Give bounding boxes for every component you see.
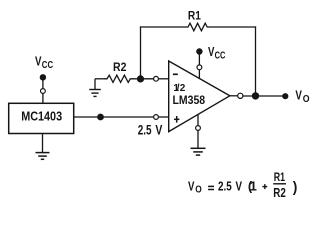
junction dot (output/feedback) <box>252 92 259 99</box>
VCC terminal dot (op-amp) <box>196 48 202 54</box>
pin circle (- input) <box>154 76 159 81</box>
op-amp U1 1/2 LM358 <box>169 61 230 132</box>
wire ground stub to R2 <box>95 78 105 80</box>
svg-text:1: 1 <box>250 179 257 194</box>
svg-text:LM358: LM358 <box>173 93 206 107</box>
junction dot (feedback node) <box>137 75 144 82</box>
pin circle (MC1403 VCC pin) <box>41 89 46 94</box>
svg-text:R1: R1 <box>274 170 286 184</box>
pin circle (op-amp VCC pin) <box>197 65 202 70</box>
formula VO = 2.5 V (1 + R1/R2) <box>188 170 297 200</box>
wire output circle to VO terminal <box>243 95 285 97</box>
node label VO <box>295 87 309 105</box>
svg-text:): ) <box>293 179 298 196</box>
wire triangle bottom edge to ground pin circle <box>197 114 199 126</box>
wire stub down to ground <box>94 79 96 90</box>
pin circle (op-amp ground pin) <box>196 126 201 131</box>
wire apex to output circle <box>230 95 238 97</box>
wire ground pin circle to ground <box>197 130 199 148</box>
svg-text:O: O <box>303 94 310 105</box>
node VCC label (left, above MC1403) <box>35 53 53 71</box>
ground (op-amp) <box>191 148 206 155</box>
svg-text:CC: CC <box>42 60 53 71</box>
wire pin circle to box top <box>42 93 44 103</box>
wire + input circle to triangle <box>158 116 169 118</box>
svg-text:2.5: 2.5 <box>138 123 152 138</box>
svg-text:CC: CC <box>215 51 226 62</box>
resistor R1 <box>186 9 209 31</box>
svg-text:V: V <box>35 53 42 68</box>
svg-text:V: V <box>236 179 243 194</box>
wire MC1403 output to op-amp + input (2.5 V node) <box>74 116 154 118</box>
wire R2 to inverting input <box>132 78 154 80</box>
wire feedback vertical right <box>255 26 257 96</box>
wire VCC dot to pin circle <box>198 52 200 65</box>
svg-text:V: V <box>188 179 195 194</box>
svg-text:R2: R2 <box>273 186 286 200</box>
pin circle (+ input) <box>154 115 159 120</box>
wire pin circle to triangle top edge <box>198 70 200 79</box>
svg-text:MC1403: MC1403 <box>21 109 62 123</box>
junction dot on 2.5 V node <box>97 114 104 121</box>
svg-text:2.5: 2.5 <box>218 179 232 194</box>
resistor R2 <box>105 60 133 83</box>
wire feedback top right segment <box>209 26 257 28</box>
voltage reference U2 MC1403 <box>9 103 74 133</box>
VCC terminal dot (left) <box>40 74 46 80</box>
wire feedback top left segment <box>140 26 187 28</box>
ground (R2) <box>89 90 101 97</box>
svg-text:R1: R1 <box>188 9 201 23</box>
svg-text:V: V <box>155 123 162 138</box>
svg-text:V: V <box>295 87 302 102</box>
node VCC label (op-amp) <box>208 44 225 62</box>
VO terminal dot <box>282 93 288 99</box>
wire MC1403 bottom to ground <box>42 133 44 152</box>
svg-text:O: O <box>195 185 202 196</box>
ground (MC1403) <box>36 153 50 160</box>
wire VCC dot to pin circle <box>42 77 44 88</box>
svg-text:R2: R2 <box>113 60 127 74</box>
pin circle (output) <box>238 93 243 98</box>
wire - input circle to triangle <box>158 78 169 80</box>
wire feedback vertical left <box>140 26 142 79</box>
